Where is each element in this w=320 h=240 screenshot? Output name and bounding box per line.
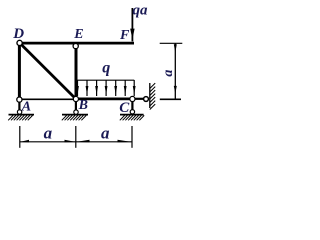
wall roller circle: [144, 97, 149, 102]
wall line: [149, 83, 151, 108]
hinge circle node C: [130, 96, 135, 101]
load arrow 7: [133, 80, 136, 96]
load arrow 1: [76, 80, 79, 96]
bottom dim tick at B: [75, 126, 77, 148]
hinge circle node E: [73, 44, 78, 49]
right dimension line: [174, 43, 176, 99]
load qa arrow at F: [131, 8, 133, 41]
load arrow 6: [124, 80, 127, 96]
svg-text:a: a: [101, 124, 110, 143]
svg-text:F: F: [119, 28, 130, 43]
dim arrow mid-right: [76, 140, 89, 143]
bottom dimension line: [20, 141, 132, 143]
bar A-B (thin): [19, 98, 76, 100]
svg-text:a: a: [161, 70, 176, 77]
load arrow 4: [105, 80, 108, 96]
svg-text:D: D: [12, 26, 24, 42]
diagonal D-B: [20, 43, 76, 99]
load arrow 2: [86, 80, 89, 96]
right dim arrow up: [174, 44, 177, 52]
ground under C: [120, 115, 144, 121]
right dimension top tick: [160, 42, 183, 44]
hinge circle node A: [17, 97, 22, 102]
svg-text:A: A: [21, 99, 31, 114]
right dimension bottom tick: [160, 98, 181, 100]
support link under B: [75, 102, 77, 111]
svg-text:qa: qa: [133, 3, 149, 19]
hinge circle node D: [17, 40, 22, 45]
column E-B: [75, 44, 78, 99]
roller circle under B: [74, 110, 78, 114]
support link under C: [131, 102, 133, 111]
hinge circle node B: [73, 96, 78, 101]
svg-text:B: B: [78, 98, 88, 113]
beam D-E-F (top chord): [16, 42, 134, 45]
svg-text:q: q: [102, 60, 110, 77]
svg-text:C: C: [119, 100, 130, 116]
dim arrow right-out: [118, 140, 132, 143]
bottom dim tick at C: [131, 126, 133, 148]
distributed load line: [76, 79, 134, 81]
svg-text:a: a: [44, 124, 53, 143]
roller circle under A: [17, 110, 21, 114]
support link under A: [18, 102, 20, 111]
column A-D: [18, 43, 21, 100]
ground under B: [62, 115, 88, 121]
svg-text:E: E: [73, 27, 83, 42]
dim arrow mid-left: [65, 140, 76, 143]
load arrow 3: [95, 80, 98, 96]
link C to wall roller: [132, 98, 146, 100]
dim arrow left-out: [20, 140, 29, 143]
roller circle under C: [130, 110, 134, 114]
right dim arrow down: [174, 86, 177, 94]
bottom dim tick at A: [19, 126, 21, 148]
beam B-C: [76, 98, 132, 101]
wall hatching: [150, 83, 155, 109]
ground under A: [8, 115, 34, 121]
load arrow 5: [114, 80, 117, 96]
